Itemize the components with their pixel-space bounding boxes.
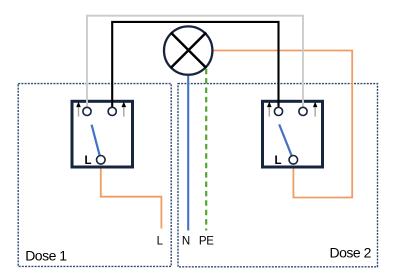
svg-text:PE: PE [199,235,214,247]
svg-text:L: L [274,155,281,167]
svg-text:Dose 1: Dose 1 [25,247,67,263]
wire blue N (lamp to N) [187,76,189,231]
wire green dashed PE [205,69,207,231]
arrow up Dose 2 left [267,102,272,117]
svg-text:N: N [182,235,190,247]
arrow up Dose 1 right [122,102,127,117]
wire black (Dose1 right terminal to Dose2 left terminal) [112,22,278,112]
terminal Dose 2 right [299,107,307,115]
wire gray (corresponding: Dose1 left terminal to Dose2 right terminal) [87,16,303,112]
terminal Dose 1 left [83,107,91,115]
switch lever Dose 2 [279,124,293,159]
dashed junction box Dose 1 [18,84,171,267]
lamp E1 cross [171,33,206,68]
terminal Dose 2 left [274,107,282,115]
dashed junction box Dose 2 [178,84,378,267]
terminal Dose 1 bottom L [97,156,106,165]
arrow up Dose 2 right [313,102,317,117]
terminal Dose 1 right [108,107,116,115]
lamp E1 circle [164,26,212,74]
switch lever Dose 1 [92,125,101,160]
svg-text:L: L [157,235,164,247]
wire orange (Dose1 bottom terminal to L) [101,160,162,229]
switch box Dose 1 [72,101,133,167]
wire orange (lamp to Dose2 bottom terminal L) [214,51,353,198]
svg-text:Dose 2: Dose 2 [330,245,372,261]
svg-text:L: L [84,155,91,167]
switch box Dose 2 [263,101,323,167]
arrow up Dose 1 left [76,102,81,117]
terminal Dose 2 bottom L [289,156,298,165]
